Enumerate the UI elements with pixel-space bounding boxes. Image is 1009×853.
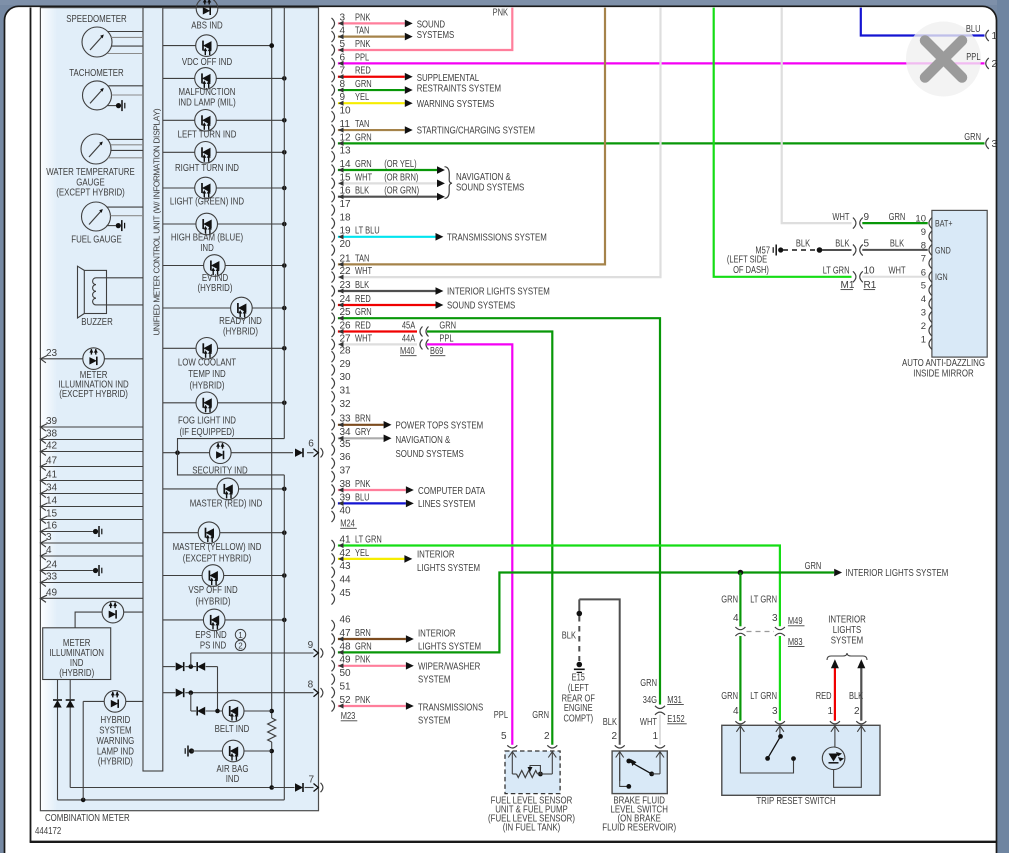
pin 16 stub wire (panel left) <box>40 521 101 537</box>
svg-text:VSP OFF IND: VSP OFF IND <box>188 584 238 596</box>
svg-text:23: 23 <box>340 280 352 291</box>
svg-text:7: 7 <box>921 254 926 265</box>
svg-text:14: 14 <box>340 159 352 170</box>
svg-text:2: 2 <box>921 321 926 332</box>
label interior lights system (23) <box>447 286 550 298</box>
svg-text:MASTER (YELLOW) IND: MASTER (YELLOW) IND <box>173 541 262 553</box>
svg-text:BAT+: BAT+ <box>935 219 953 230</box>
label GRN (mirror BAT+) <box>889 212 906 223</box>
indicator wire MASTER (RED) IND <box>163 487 287 492</box>
combination meter label <box>45 812 130 824</box>
wire BLK dashed to E15 <box>562 616 580 661</box>
svg-text:23: 23 <box>46 348 58 359</box>
svg-text:52: 52 <box>340 695 352 706</box>
connector M24/M23 pin 4 hook <box>332 26 346 43</box>
pin 7 diode D7 <box>295 783 303 792</box>
wire pin 6 PPL <box>338 52 985 66</box>
labels RED BLK <box>816 691 864 702</box>
indicator wire VDC OFF IND <box>163 43 274 48</box>
svg-text:6: 6 <box>308 439 314 450</box>
label computer data lines system <box>418 485 485 510</box>
indicator wire ABS IND <box>163 7 272 9</box>
svg-text:5: 5 <box>501 731 507 742</box>
pin 6 exit arrow <box>308 439 323 458</box>
svg-text:BRN: BRN <box>355 414 371 425</box>
air bag LED <box>222 740 244 762</box>
connector M24/M23 pin 40 hook <box>332 505 352 522</box>
wire pin 3 PNK <box>338 12 413 27</box>
meter illumination (hybrid) LED wire <box>75 612 143 628</box>
junction dot interior lights <box>738 570 744 576</box>
svg-text:LIGHTS SYSTEM: LIGHTS SYSTEM <box>417 562 480 574</box>
indicator labels READY IND <box>219 315 262 337</box>
wire pin 21 TAN <box>338 8 605 267</box>
tachometer wires <box>108 86 143 95</box>
pin 7 row right segment <box>272 787 314 789</box>
label sound systems (pins 3-4) <box>417 18 455 41</box>
brake fluid level switch box <box>612 751 667 794</box>
svg-text:PNK: PNK <box>493 8 509 19</box>
svg-text:ABS IND: ABS IND <box>191 19 223 31</box>
resistor on bus 1 <box>268 718 276 742</box>
label transmissions system (19) <box>447 231 547 243</box>
svg-text:36: 36 <box>340 452 352 463</box>
svg-text:YEL: YEL <box>355 92 370 103</box>
svg-text:N: N <box>151 145 161 151</box>
pin 39 stub wire (panel left) <box>40 416 143 431</box>
indicator wire LEFT TURN IND <box>163 118 287 123</box>
svg-text:39: 39 <box>46 416 58 427</box>
meter illumination ind LED <box>83 348 105 370</box>
wire pin 12 GRN <box>338 132 985 146</box>
svg-text:LT GRN: LT GRN <box>355 534 382 545</box>
svg-text:STARTING/CHARGING SYSTEM: STARTING/CHARGING SYSTEM <box>417 124 535 136</box>
ground M57 <box>755 245 783 257</box>
labels GRN LT GRN above trip <box>721 691 778 717</box>
svg-text:12: 12 <box>340 132 352 143</box>
svg-text:L: L <box>151 235 161 240</box>
svg-text:YEL: YEL <box>355 548 370 559</box>
svg-text:(HYBRID): (HYBRID) <box>196 595 231 607</box>
connector M24/M23 pin 18 hook <box>332 212 352 229</box>
connector M31/E152 labels <box>667 695 687 725</box>
indicator wire FOG LIGHT IND <box>163 401 287 406</box>
wire BLU to edge pin 1 <box>861 8 985 36</box>
svg-text:32: 32 <box>340 399 352 410</box>
svg-text:BLK: BLK <box>562 631 576 642</box>
svg-text:WHT: WHT <box>355 172 372 183</box>
label BLK (mirror GND) <box>890 239 904 250</box>
auto anti-dazzling mirror box <box>932 210 987 357</box>
wire pin 22 WHT <box>338 8 661 280</box>
wire pin 34 GRY <box>338 427 392 442</box>
svg-text:48: 48 <box>340 641 352 652</box>
svg-text:51: 51 <box>340 682 352 693</box>
wire WHT mirror IGN <box>862 276 927 278</box>
svg-text:24: 24 <box>46 560 58 571</box>
svg-text:45A: 45A <box>402 320 416 331</box>
svg-text:PPL: PPL <box>439 333 454 344</box>
indicator LED RIGHT TURN IND <box>195 142 217 164</box>
svg-text:26: 26 <box>340 320 352 331</box>
fuel gauge terminal <box>107 220 125 231</box>
tachometer gauge <box>83 81 112 110</box>
svg-text:WHT: WHT <box>888 266 905 277</box>
svg-text:SYSTEM: SYSTEM <box>418 673 450 685</box>
svg-text:3: 3 <box>921 308 926 319</box>
indicator LED READY IND <box>231 297 253 319</box>
connector M24/M23 pin 9 hook <box>332 92 346 109</box>
indicator wire RIGHT TURN IND <box>163 150 287 155</box>
security ind LED <box>210 442 232 464</box>
connector M24/M23 pin 29 hook <box>332 359 352 376</box>
indicator wire MASTER (YELLOW) IND <box>163 530 287 535</box>
trip LED connection <box>834 737 862 787</box>
label WHT (R1 pin9) <box>832 212 849 223</box>
svg-text:42: 42 <box>340 548 352 559</box>
svg-text:8: 8 <box>308 680 314 691</box>
svg-text:WHT: WHT <box>640 717 657 728</box>
svg-text:GRN: GRN <box>439 320 456 331</box>
svg-text:35: 35 <box>340 439 352 450</box>
fuel box pin arrows <box>508 752 556 774</box>
indicator labels HIGH BEAM (BLUE) IND <box>171 232 243 254</box>
svg-text:IND: IND <box>200 242 214 254</box>
label BLK (brake pin2) <box>603 717 618 742</box>
connector M24/M23 pin 33 hook <box>332 414 352 431</box>
pin 15 stub wire (panel left) <box>40 509 143 524</box>
water temperature wires <box>107 139 143 157</box>
schematic frame left border <box>30 8 32 842</box>
svg-text:18: 18 <box>340 212 352 223</box>
svg-text:3: 3 <box>772 613 778 624</box>
edge hooks and numbers <box>986 30 998 150</box>
wire pin7 row left segment <box>70 787 272 789</box>
svg-text:WHT: WHT <box>355 333 372 344</box>
svg-text:PNK: PNK <box>355 12 371 23</box>
connector M24/M23 pin 39 hook <box>332 492 352 509</box>
connector R1/M1 hooks row1 <box>853 212 870 229</box>
trip reset switch label <box>756 795 835 807</box>
wire RED trip pin 1 <box>831 659 839 721</box>
brake fluid labels <box>602 795 676 834</box>
svg-text:39: 39 <box>340 492 352 503</box>
svg-text:LT GRN: LT GRN <box>823 266 850 277</box>
svg-text:34: 34 <box>46 483 58 494</box>
svg-text:WARNING SYSTEMS: WARNING SYSTEMS <box>417 98 495 110</box>
svg-text:PPL: PPL <box>494 710 509 721</box>
connector M24/M23 pin 26 hook <box>332 320 352 337</box>
indicator labels MIL <box>178 86 236 109</box>
wire pin 8 GRN <box>338 79 413 94</box>
svg-text:1: 1 <box>652 731 658 742</box>
wire pin 48 GRN <box>338 573 834 656</box>
label warning systems <box>417 98 495 110</box>
svg-text:19: 19 <box>340 226 352 237</box>
svg-text:PPL: PPL <box>966 52 981 63</box>
connector M24/M23 pin 42 hook <box>332 548 352 565</box>
svg-text:WHT: WHT <box>832 212 849 223</box>
connector M24/M23 pin 43 hook <box>332 561 352 578</box>
svg-text:1: 1 <box>921 334 926 345</box>
diode D1 under illumination box <box>53 680 62 800</box>
svg-text:COMPUTER DATA: COMPUTER DATA <box>418 485 485 497</box>
pin 9 exit <box>308 640 323 658</box>
indicator LED LEFT TURN IND <box>195 110 217 132</box>
svg-text:BLK: BLK <box>796 239 810 250</box>
svg-text:34: 34 <box>340 427 352 438</box>
svg-text:BELT IND: BELT IND <box>215 723 250 735</box>
svg-text:4: 4 <box>46 545 52 556</box>
connector M24/M23 pin 12 hook <box>332 132 352 149</box>
connector M24/M23 pin 30 hook <box>332 372 352 389</box>
fuel gauge wires <box>107 207 143 216</box>
wire pin 52 PNK <box>338 695 414 710</box>
svg-text:GND: GND <box>935 245 951 256</box>
fuel pin numbers <box>501 731 550 742</box>
label starting/charging system <box>417 124 535 136</box>
svg-text:3: 3 <box>46 532 52 543</box>
belt diode D6 <box>197 707 205 716</box>
indicator labels MASTER (RED) IND <box>190 497 263 509</box>
wire WHT to connector R1 pin 9 <box>782 8 852 224</box>
svg-text:BLK: BLK <box>835 239 849 250</box>
wire pin 11 TAN <box>338 119 413 134</box>
connector M24/M23 pin 47 hook <box>332 628 352 645</box>
svg-text:GRN: GRN <box>889 212 906 223</box>
indicator LED VSP OFF IND <box>202 565 224 587</box>
svg-text:RIGHT TURN IND: RIGHT TURN IND <box>175 162 239 174</box>
svg-text:PNK: PNK <box>355 695 371 706</box>
svg-text:PNK: PNK <box>355 39 371 50</box>
unified meter control unit label <box>151 108 161 335</box>
connector M24/M23 pin 45 hook <box>332 588 352 605</box>
indicator wire LOW COOLANT TEMP IND <box>163 346 287 351</box>
svg-text:(OR BRN): (OR BRN) <box>384 172 418 183</box>
svg-text:1: 1 <box>238 631 243 640</box>
svg-text:TRANSMISSIONS: TRANSMISSIONS <box>418 702 483 714</box>
svg-text:49: 49 <box>46 587 58 598</box>
svg-text:17: 17 <box>340 199 352 210</box>
svg-text:VDC OFF IND: VDC OFF IND <box>182 56 233 68</box>
svg-text:38: 38 <box>46 429 58 440</box>
svg-text:GRN: GRN <box>805 561 822 572</box>
pin 9 row wire <box>191 652 314 654</box>
mirror label <box>902 357 985 380</box>
connector M24/M23 pin 19 hook <box>332 226 352 243</box>
svg-text:SOUND SYSTEMS: SOUND SYSTEMS <box>456 182 524 194</box>
wire pin 16 BLK <box>338 186 445 201</box>
connector M23 label <box>341 711 358 722</box>
svg-text:4: 4 <box>733 613 739 624</box>
svg-text:2: 2 <box>544 731 550 742</box>
svg-text:BRN: BRN <box>355 628 371 639</box>
pin 7 exit arrow <box>309 774 323 792</box>
connector M24/M23 pin 31 hook <box>332 386 352 403</box>
svg-text:INTERIOR LIGHTS SYSTEM: INTERIOR LIGHTS SYSTEM <box>846 567 949 579</box>
svg-text:13: 13 <box>340 146 352 157</box>
wire pin 4 TAN <box>338 26 413 41</box>
svg-text:LT GRN: LT GRN <box>750 691 777 702</box>
trip illumination LED <box>822 747 845 770</box>
fuel level sensor box <box>505 751 560 794</box>
indicator labels FOG LIGHT IND <box>178 414 236 438</box>
indicator labels LIGHT (GREEN) IND <box>170 196 245 208</box>
connector M24/M23 pin 16 hook <box>332 186 352 203</box>
connector R1/M1 hooks row2 <box>853 239 870 256</box>
eps diode D3 <box>176 662 184 671</box>
connector M24/M23 pin 28 hook <box>332 346 352 363</box>
wire 44A PPL <box>427 333 512 745</box>
labels 1 2 trip pins <box>827 706 860 717</box>
svg-text:RED: RED <box>355 320 371 331</box>
svg-text:2: 2 <box>992 59 998 70</box>
label sound systems (24) <box>447 300 515 312</box>
svg-text:BLU: BLU <box>966 24 981 35</box>
svg-text:POWER TOPS SYSTEM: POWER TOPS SYSTEM <box>396 419 484 431</box>
connector M24/M23 pin 22 hook <box>332 266 352 283</box>
indicator wire VSP OFF IND <box>163 573 287 578</box>
svg-text:INTERIOR LIGHTS SYSTEM: INTERIOR LIGHTS SYSTEM <box>447 286 550 298</box>
security diode <box>295 448 303 457</box>
tachometer terminal <box>108 100 125 111</box>
security ind wire <box>163 450 314 455</box>
svg-text:33: 33 <box>340 414 352 425</box>
indicator LED FOG LIGHT IND <box>196 392 218 414</box>
label PNK at top <box>493 8 509 19</box>
wire BLK brake pin 2 <box>579 599 619 744</box>
svg-text:PNK: PNK <box>355 479 371 490</box>
svg-text:IND LAMP (MIL): IND LAMP (MIL) <box>178 96 236 108</box>
label GRN 34G (brake pin1) <box>640 678 657 706</box>
svg-text:(HYBRID): (HYBRID) <box>198 282 233 294</box>
svg-text:27: 27 <box>340 333 352 344</box>
indicator LED LIGHT (GREEN) IND <box>195 177 217 199</box>
svg-text:RED: RED <box>816 691 832 702</box>
svg-text:TRANSMISSIONS SYSTEM: TRANSMISSIONS SYSTEM <box>447 231 547 243</box>
pin 8 diode D5 <box>176 688 184 697</box>
belt ind LED <box>222 700 244 722</box>
brace navigation & sound <box>445 167 453 199</box>
svg-text:46: 46 <box>340 615 352 626</box>
arrow interior lights system right <box>805 561 949 579</box>
mirror pin labels <box>935 219 953 284</box>
indicator labels MASTER (YELLOW) IND <box>173 541 262 565</box>
hybrid system warning lamp labels <box>97 714 135 768</box>
indicator LED VDC OFF IND <box>196 35 218 57</box>
svg-text:2: 2 <box>238 642 243 651</box>
svg-text:OF DASH): OF DASH) <box>733 265 769 276</box>
connector M24/M23 pin 41 hook <box>332 534 352 551</box>
connector M24/M23 pin 8 hook <box>332 79 346 96</box>
connector M24/M23 pin 27 hook <box>332 333 352 350</box>
svg-text:PPL: PPL <box>355 52 370 63</box>
air bag label <box>217 763 249 785</box>
security ind label <box>192 464 248 476</box>
meter illumination (hybrid) LED <box>102 601 124 623</box>
indicator labels VSP OFF IND <box>188 584 238 607</box>
indicator bus 1 <box>269 8 274 790</box>
connector M24/M23 pin 36 hook <box>332 452 352 469</box>
indicator labels EPS IND <box>195 629 245 652</box>
svg-text:BUZZER: BUZZER <box>81 316 113 328</box>
svg-text:SPEEDOMETER: SPEEDOMETER <box>66 13 127 25</box>
speedometer gauge <box>82 27 112 57</box>
svg-text:3: 3 <box>992 139 998 150</box>
svg-text:10: 10 <box>864 266 876 277</box>
svg-text:29: 29 <box>340 359 352 370</box>
indicator wire EPS IND <box>163 618 287 623</box>
svg-text:(HYBRID): (HYBRID) <box>59 667 94 679</box>
connector R1/M1 hooks row3 <box>853 266 875 283</box>
indicator wire LIGHT (GREEN) IND <box>163 186 287 191</box>
trip pin hooks <box>735 721 866 724</box>
svg-text:(HYBRID): (HYBRID) <box>223 325 258 337</box>
connector M49/M83 hooks <box>735 627 785 636</box>
wire pin 39 BLU <box>338 492 414 507</box>
air bag wire <box>192 750 272 752</box>
svg-text:IND: IND <box>226 773 240 785</box>
wire pin 49 PNK <box>338 655 414 670</box>
hybrid system warning lamp LED wire <box>83 701 143 800</box>
combination meter panel <box>40 8 318 811</box>
connector M24/M23 pin 48 hook <box>332 641 352 658</box>
fuel level sensor resistor <box>512 771 552 778</box>
svg-text:9: 9 <box>921 227 926 238</box>
buzzer <box>78 266 107 318</box>
connector M24/M23 pin 20 hook <box>332 239 352 256</box>
connector M24/M23 pin 13 hook <box>332 146 352 163</box>
connector M24/M23 pin 52 hook <box>332 695 352 712</box>
svg-text:WHT: WHT <box>355 266 372 277</box>
svg-text:GRN: GRN <box>532 710 549 721</box>
svg-text:BLK: BLK <box>890 239 904 250</box>
label navigation & sound systems (14-16) <box>456 171 524 194</box>
label navigation & sound systems (34) <box>396 434 464 460</box>
indicator LED EPS IND <box>203 609 225 631</box>
svg-text:47: 47 <box>46 456 58 467</box>
belt ind label <box>215 723 250 735</box>
indicator wire EV IND <box>163 263 287 268</box>
svg-text:INTERIOR: INTERIOR <box>417 549 455 561</box>
svg-text:(LEFT SIDE: (LEFT SIDE <box>727 255 768 266</box>
wire pin 27 WHT <box>338 333 417 347</box>
connector M24/M23 pin 24 hook <box>332 294 352 311</box>
indicator labels LEFT TURN IND <box>178 129 237 141</box>
meter illumination ind labels <box>58 369 129 400</box>
wire BLK trip pin 2 <box>857 659 865 721</box>
svg-text:T: T <box>151 215 161 220</box>
pin 3 stub wire (panel left) <box>40 532 143 547</box>
connector M24/M23 pin 38 hook <box>332 479 352 496</box>
label BLU at edge <box>966 24 981 63</box>
svg-text:PNK: PNK <box>355 655 371 666</box>
connector M24/M23 pin 37 hook <box>332 466 352 483</box>
svg-text:33: 33 <box>46 572 58 583</box>
wire pin 15 WHT <box>338 172 445 187</box>
connector M31/E152 hooks <box>655 706 665 715</box>
svg-text:5: 5 <box>921 281 926 292</box>
svg-text:7: 7 <box>309 774 315 785</box>
label wiper/washer system <box>418 661 481 686</box>
water temperature gauge <box>81 134 111 164</box>
wire PPL label (fuel pin5) <box>494 710 509 721</box>
svg-text:TEMP IND: TEMP IND <box>188 368 226 380</box>
svg-text:38: 38 <box>340 479 352 490</box>
pin 14 stub wire (panel left) <box>40 496 143 511</box>
bus2 bypass around security ind <box>178 439 285 475</box>
fuel pin hooks <box>507 745 557 748</box>
